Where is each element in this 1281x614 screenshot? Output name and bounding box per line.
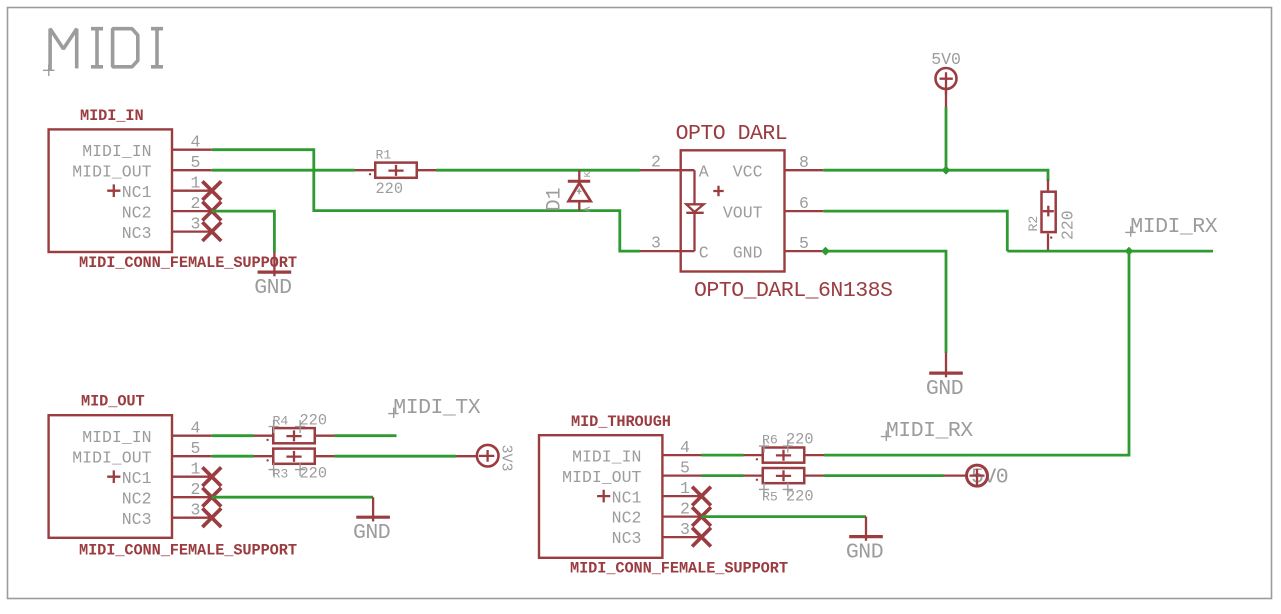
svg-text:NC2: NC2 <box>122 489 152 508</box>
junction (U1.5) <box>821 247 830 256</box>
wire R5 to 5V0 <box>824 474 944 477</box>
svg-text:MID_OUT: MID_OUT <box>81 393 145 411</box>
svg-text:NC2: NC2 <box>612 509 642 528</box>
svg-text:3: 3 <box>651 234 661 253</box>
wire R1 to opto pin2 <box>436 169 640 172</box>
svg-text:NC1: NC1 <box>122 183 152 202</box>
svg-text:MIDI_CONN_FEMALE_SUPPORT: MIDI_CONN_FEMALE_SUPPORT <box>79 254 297 272</box>
svg-text:4: 4 <box>191 419 201 438</box>
svg-text:3V3: 3V3 <box>498 445 515 472</box>
J1 value label <box>79 254 297 272</box>
sheet title MIDI <box>43 29 163 76</box>
wire U1.5 to GND <box>823 251 946 353</box>
svg-text:GND: GND <box>846 540 883 564</box>
svg-text:VOUT: VOUT <box>723 203 763 222</box>
svg-text:2: 2 <box>191 480 201 499</box>
svg-text:3: 3 <box>191 215 201 234</box>
svg-text:220: 220 <box>786 488 814 506</box>
svg-text:A: A <box>582 206 593 212</box>
wire J1.2 to GND <box>212 211 275 252</box>
svg-text:C: C <box>699 243 709 262</box>
svg-text:MIDI_OUT: MIDI_OUT <box>72 162 151 181</box>
U1 pin 8 <box>785 153 824 172</box>
svg-text:R1: R1 <box>376 148 392 163</box>
wire J2.2 to GND <box>212 496 373 499</box>
ground GND (J1 pin2) <box>254 252 291 300</box>
svg-text:MIDI_CONN_FEMALE_SUPPORT: MIDI_CONN_FEMALE_SUPPORT <box>79 542 297 560</box>
J3 pin 5 <box>662 459 701 478</box>
wire J3.5 to R5 <box>702 474 744 477</box>
svg-text:3: 3 <box>680 520 690 539</box>
J3 pin 2 <box>662 500 701 519</box>
svg-text:MIDI_RX: MIDI_RX <box>886 419 973 443</box>
J2 no-connect X pin1 <box>202 467 221 486</box>
wire J2.4 to R4 <box>212 434 254 437</box>
svg-text:MIDI_TX: MIDI_TX <box>393 396 480 420</box>
supply 3V3 <box>457 445 515 472</box>
svg-text:MIDI_OUT: MIDI_OUT <box>562 468 641 487</box>
svg-text:5: 5 <box>191 439 201 458</box>
J1 no-connect X pin1 <box>202 181 221 200</box>
supply 5V0 (bottom) <box>944 465 1009 490</box>
svg-text:220: 220 <box>300 464 328 482</box>
svg-text:3: 3 <box>191 501 201 520</box>
svg-text:4: 4 <box>191 133 201 152</box>
svg-text:NC2: NC2 <box>122 203 152 222</box>
U1 pin 3 <box>640 234 681 253</box>
J1 pin 4 <box>172 133 212 152</box>
wire J3.4 to R6 <box>702 454 744 457</box>
svg-text:D1: D1 <box>544 187 567 211</box>
svg-text:NC3: NC3 <box>122 510 152 529</box>
svg-text:OPTO_DARL_6N138S: OPTO_DARL_6N138S <box>694 279 892 303</box>
svg-text:GND: GND <box>733 243 763 262</box>
J3 value label <box>570 560 788 578</box>
svg-text:K: K <box>582 171 593 177</box>
svg-text:GND: GND <box>353 521 390 545</box>
resistor R2 <box>1026 180 1077 252</box>
svg-text:R3: R3 <box>273 466 289 481</box>
wire net MIDI_TX <box>335 434 397 437</box>
J2 pin 3 <box>172 501 212 520</box>
svg-text:2: 2 <box>651 153 661 172</box>
supply 5V0 (top) <box>931 50 961 107</box>
connector J2 name MID_OUT <box>81 393 145 411</box>
J3 pin 1 <box>662 479 701 498</box>
svg-text:VCC: VCC <box>733 162 763 181</box>
svg-text:5: 5 <box>799 234 809 253</box>
J2 no-connect X pin3 <box>202 508 221 527</box>
svg-text:NC1: NC1 <box>612 488 642 507</box>
svg-text:MIDI_IN: MIDI_IN <box>80 107 144 125</box>
J2 no-connect X pin2 <box>202 488 221 507</box>
wire MIDI_RX down to R6 <box>824 251 1129 455</box>
J2 pin 1 <box>172 460 212 479</box>
svg-text:220: 220 <box>1059 210 1078 240</box>
resistor R1 <box>355 148 436 198</box>
svg-text:R2: R2 <box>1026 216 1041 232</box>
svg-text:4: 4 <box>680 438 690 457</box>
J2 pin 2 <box>172 480 212 499</box>
node MIDI_RX label (top) <box>1125 215 1218 239</box>
J1 pin 3 <box>172 215 212 234</box>
svg-text:MIDI_OUT: MIDI_OUT <box>72 448 151 467</box>
opto U1 body <box>681 150 785 271</box>
svg-text:6: 6 <box>799 194 809 213</box>
wire net MIDI_RX <box>1007 250 1213 253</box>
svg-text:A: A <box>699 162 709 181</box>
junction (5V0 / pin8) <box>942 166 951 175</box>
svg-text:5V0: 5V0 <box>931 50 961 69</box>
U1 pin 6 <box>785 194 824 213</box>
svg-text:MIDI_RX: MIDI_RX <box>1130 215 1217 239</box>
node MIDI_RX label (bottom) <box>881 419 974 443</box>
svg-text:NC3: NC3 <box>612 529 642 548</box>
svg-text:NC1: NC1 <box>122 469 152 488</box>
svg-text:5: 5 <box>680 459 690 478</box>
connector J2 body <box>49 415 172 538</box>
connector J1 body <box>49 129 172 252</box>
connector J3 name MID_THROUGH <box>571 413 671 431</box>
junction (MIDI_RX drop) <box>1125 247 1134 256</box>
svg-text:1: 1 <box>680 479 690 498</box>
connector J1 name MIDI_IN <box>80 107 144 125</box>
svg-text:2: 2 <box>680 500 690 519</box>
svg-text:MIDI_IN: MIDI_IN <box>82 142 151 161</box>
svg-text:NC3: NC3 <box>122 224 152 243</box>
J3 pin 3 <box>662 520 701 539</box>
svg-text:MIDI_IN: MIDI_IN <box>82 428 151 447</box>
resistor R3 <box>254 449 335 483</box>
J2 pin 5 <box>172 439 212 458</box>
wire 5V0 drop <box>945 107 948 170</box>
diode D1 <box>544 170 594 212</box>
svg-text:MIDI_CONN_FEMALE_SUPPORT: MIDI_CONN_FEMALE_SUPPORT <box>570 560 788 578</box>
J1 pin 5 <box>172 153 212 172</box>
node MIDI_TX label <box>388 396 481 420</box>
svg-text:MIDI_IN: MIDI_IN <box>572 447 641 466</box>
op-amp U1 OPTO DARL name <box>676 122 788 146</box>
svg-text:2: 2 <box>191 194 201 213</box>
ground GND (below U1) <box>926 353 963 401</box>
svg-text:GND: GND <box>254 276 291 300</box>
U1 pin 5 <box>785 234 824 253</box>
svg-text:GND: GND <box>926 377 963 401</box>
U1 value label <box>694 279 892 303</box>
J1 pin 1 <box>172 174 212 193</box>
J2 value label <box>79 542 297 560</box>
wire net J1.4 to opto pin3 <box>212 150 640 251</box>
J3 no-connect X pin1 <box>692 487 711 506</box>
wire U1.6 to MIDI_RX <box>823 211 1007 251</box>
svg-text:5: 5 <box>191 153 201 172</box>
svg-text:1: 1 <box>191 174 201 193</box>
U1 pin 2 <box>640 153 681 172</box>
resistor R4 <box>254 412 335 444</box>
svg-text:OPTO DARL: OPTO DARL <box>676 122 788 146</box>
J3 no-connect X pin3 <box>692 528 711 547</box>
J3 no-connect X pin2 <box>692 507 711 526</box>
resistor R5 <box>744 468 825 506</box>
J1 pin 2 <box>172 194 212 213</box>
svg-text:1: 1 <box>191 460 201 479</box>
ground GND (J2 pin2) <box>353 497 390 545</box>
svg-text:8: 8 <box>799 153 809 172</box>
J1 no-connect X pin2 <box>202 202 221 221</box>
wire net J1.5 to R1 <box>212 169 355 172</box>
wire R3 to 3V3 <box>335 455 457 458</box>
J1 no-connect X pin3 <box>202 222 221 241</box>
svg-text:MID_THROUGH: MID_THROUGH <box>571 413 671 431</box>
wire U1.8 to R2 top <box>823 170 1048 181</box>
connector J3 body <box>539 435 662 558</box>
wire J2.5 to R3 <box>212 455 254 458</box>
J3 pin 4 <box>662 438 701 457</box>
ground GND (J3 pin2) <box>846 517 883 565</box>
resistor R6 <box>744 431 825 463</box>
J2 pin 4 <box>172 419 212 438</box>
wire J3.2 to GND <box>702 515 867 518</box>
svg-text:220: 220 <box>376 180 404 198</box>
